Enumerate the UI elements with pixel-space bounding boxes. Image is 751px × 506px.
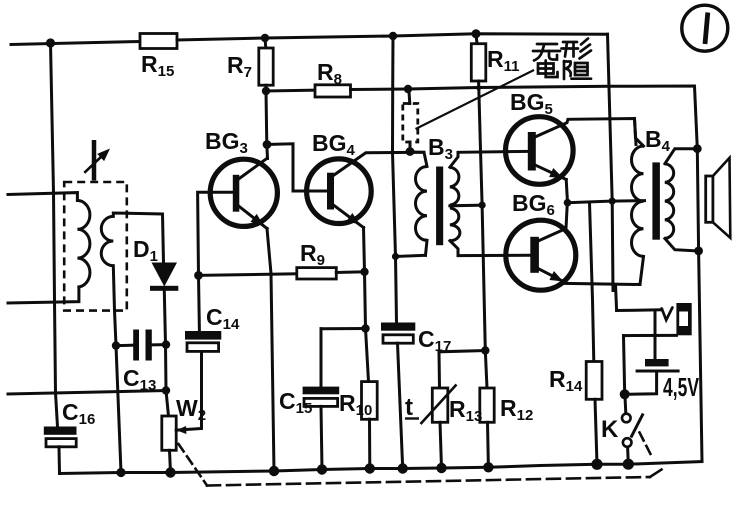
svg-text:K: K xyxy=(601,416,619,443)
svg-text:4,5V: 4,5V xyxy=(663,372,699,402)
svg-text:t: t xyxy=(405,394,413,421)
